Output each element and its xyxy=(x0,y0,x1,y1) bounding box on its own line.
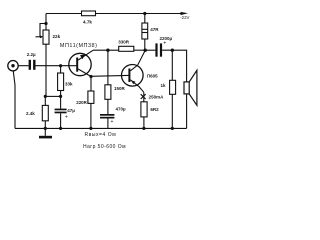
wire T1 emitter to T2 base xyxy=(91,74,129,77)
resistor 6R2 xyxy=(141,102,159,117)
svg-text:250mA: 250mA xyxy=(149,95,165,100)
wire jack to ground rail xyxy=(13,71,15,129)
wire pot wiper xyxy=(40,24,46,37)
svg-text:Rвых=4 Ом: Rвых=4 Ом xyxy=(85,132,117,138)
node junction 6R2 ground xyxy=(142,127,145,130)
wire top supply rail right segment xyxy=(96,13,182,15)
node junction 47u ground xyxy=(59,127,62,130)
svg-text:330R: 330R xyxy=(118,39,130,44)
wire T2 emitter down xyxy=(143,92,145,102)
resistor 330R xyxy=(118,39,134,51)
wire speaker bottom xyxy=(186,94,188,128)
svg-text:4.7k: 4.7k xyxy=(83,20,92,25)
node junction ground symbol tap xyxy=(44,127,47,130)
svg-text:220R: 220R xyxy=(76,100,87,105)
resistor 220R xyxy=(76,91,94,105)
svg-text:22k: 22k xyxy=(53,34,61,39)
node junction 47R on rail xyxy=(143,12,146,15)
wire top supply rail left segment xyxy=(46,13,82,15)
svg-text:1k: 1k xyxy=(161,83,167,88)
capacitor 2200u output electrolytic xyxy=(155,36,172,57)
transistor T2 P605 xyxy=(122,50,159,92)
wire 470u bottom stub xyxy=(107,119,109,129)
wire 150R to 470u xyxy=(107,99,109,114)
wire jack to capacitor xyxy=(18,65,29,67)
svg-text:47µ: 47µ xyxy=(67,108,75,113)
wire pot top from rail xyxy=(45,14,47,31)
resistor 33k xyxy=(58,73,73,91)
wire 47R top stub xyxy=(144,14,146,24)
wire 6R2 bottom stub xyxy=(143,117,145,128)
node junction T1 emitter xyxy=(89,75,92,78)
wire 1k bottom stub xyxy=(171,94,173,128)
resistor 1k xyxy=(161,80,176,94)
ground xyxy=(39,128,52,138)
wire node B horizontal xyxy=(45,95,60,97)
resistor 4.7k xyxy=(82,11,96,25)
svg-text:П605: П605 xyxy=(147,73,158,78)
capacitor 470u electrolytic xyxy=(100,106,126,125)
svg-text:33k: 33k xyxy=(65,82,73,87)
wire node to 150R xyxy=(107,50,109,85)
wire base net to T1 xyxy=(36,65,77,67)
node junction 1k tap xyxy=(171,49,174,52)
wire 33k top stub xyxy=(60,66,62,73)
svg-text:Нагр 50-600 Ом: Нагр 50-600 Ом xyxy=(83,144,126,150)
wire 47R bottom stub xyxy=(144,39,146,50)
capacitor 47u electrolytic xyxy=(55,108,76,121)
wire 330R to node A xyxy=(134,49,145,51)
svg-text:+: + xyxy=(163,40,166,46)
svg-text:+: + xyxy=(65,115,68,121)
svg-text:470µ: 470µ xyxy=(116,106,127,111)
wire T1 collector net xyxy=(93,49,119,51)
wire 2.4k bottom stub xyxy=(44,121,46,129)
transistor T1 MP11(MP38) xyxy=(60,43,98,76)
resistor 150R xyxy=(105,85,126,100)
node junction 1k ground xyxy=(171,127,174,130)
fuse 250mA xyxy=(141,94,164,100)
potentiometer 22k (wiper arrow) xyxy=(36,30,61,44)
svg-text:2.4k: 2.4k xyxy=(26,111,35,116)
svg-text:6R2: 6R2 xyxy=(150,107,159,112)
wire pot bottom down to node B xyxy=(45,44,47,96)
svg-text:2.2µ: 2.2µ xyxy=(27,52,36,57)
wire bottom ground rail xyxy=(15,127,187,129)
node junction 33k top on base wire xyxy=(59,64,62,67)
wire output net xyxy=(162,50,187,82)
wire 220R bottom stub xyxy=(90,103,92,128)
node junction at 150R drop xyxy=(106,49,109,52)
wire 220R top stub xyxy=(90,77,92,92)
svg-text:МП11(МП38): МП11(МП38) xyxy=(60,43,98,49)
node junction 220R ground xyxy=(89,127,92,130)
supply arrow -22V xyxy=(180,12,189,20)
wire 1k top stub xyxy=(171,50,173,80)
wire 47u bottom stub xyxy=(60,113,62,128)
loudspeaker xyxy=(184,70,197,105)
wire 47u top stub xyxy=(60,96,62,108)
wire 33k bottom stub xyxy=(60,91,62,97)
resistor 2.4k xyxy=(26,105,48,120)
svg-text:150R: 150R xyxy=(114,86,126,91)
wire node A to output cap xyxy=(145,49,155,51)
node junction A xyxy=(144,49,147,52)
node junction B left xyxy=(44,95,47,98)
svg-text:+: + xyxy=(110,119,113,125)
wire 2.4k top stub xyxy=(44,96,46,105)
svg-text:47R: 47R xyxy=(150,27,159,32)
input jack connector xyxy=(8,60,18,70)
capacitor 2.2u input coupling xyxy=(27,52,36,70)
svg-text:-22V: -22V xyxy=(180,15,189,20)
node junction pot wiper tie xyxy=(44,22,47,25)
resistor 47R xyxy=(142,23,159,39)
node junction B right xyxy=(59,95,62,98)
